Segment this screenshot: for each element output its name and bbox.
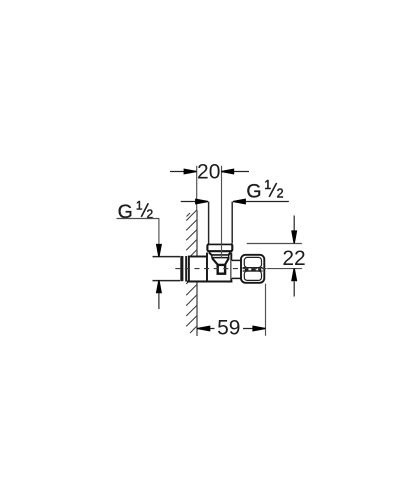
svg-text:2: 2 bbox=[277, 187, 284, 201]
body bottom edge bbox=[187, 281, 233, 283]
outlet neck fill bbox=[231, 260, 241, 278]
neck bottom line bbox=[232, 277, 242, 279]
left tube bottom arrow (up) bbox=[156, 280, 162, 309]
svg-text:20: 20 bbox=[197, 160, 220, 183]
svg-text:1: 1 bbox=[264, 178, 271, 192]
svg-text:1: 1 bbox=[136, 198, 143, 212]
dim 22: top arrow (down) bbox=[291, 216, 297, 244]
bonnet skirt line bbox=[211, 254, 229, 256]
neck top line bbox=[232, 259, 242, 261]
pipe dia dim: right arrow with G 1/2 leader bbox=[233, 198, 289, 204]
nut slot line top bbox=[243, 267, 263, 269]
shank ring 1 bbox=[180, 256, 183, 281]
dim 20: right arrow bbox=[221, 168, 249, 174]
nut thread mark 1 bbox=[245, 268, 249, 270]
shank ring 2 bbox=[185, 256, 187, 282]
flange chamfer right bbox=[229, 252, 231, 255]
dim 20: right extension line bbox=[221, 166, 223, 258]
wall surface line bbox=[196, 210, 198, 336]
pipe right edge bbox=[231, 202, 233, 244]
left G1/2 leader vertical + down arrow bbox=[156, 219, 162, 257]
outlet hex nut bbox=[241, 255, 264, 283]
dim 22: bottom extension line bbox=[267, 268, 302, 270]
label G 1/2 left bbox=[118, 198, 154, 223]
shank rings backing bbox=[180, 256, 188, 282]
valve seat cup bbox=[218, 265, 225, 274]
nut upper facet lobe bbox=[244, 257, 261, 267]
dim 22: top extension line bbox=[247, 243, 302, 245]
left G1/2 leader underline bbox=[117, 218, 160, 220]
body center left edge bbox=[206, 253, 208, 282]
dim 20: left extension line bbox=[196, 166, 198, 211]
pipe left edge bbox=[208, 202, 210, 244]
nut lower facet lobe bbox=[244, 271, 261, 280]
dim 59: right arrow (points right) bbox=[243, 325, 265, 331]
funnel left slant bbox=[212, 258, 218, 265]
body center right edge bbox=[230, 253, 232, 282]
label G 1/2 top right bbox=[246, 178, 283, 203]
nut slot line bottom bbox=[243, 270, 263, 272]
svg-text:22: 22 bbox=[282, 247, 305, 270]
top flange bbox=[207, 244, 232, 251]
bonnet skirt left side bbox=[211, 255, 213, 258]
bonnet skirt right side bbox=[228, 255, 230, 258]
flange chamfer left bbox=[209, 252, 212, 255]
inlet tube G1/2 shank bbox=[153, 257, 182, 281]
valve body left section bbox=[189, 257, 207, 282]
funnel right slant bbox=[225, 258, 229, 265]
body shoulder line bbox=[211, 257, 229, 259]
svg-text:G: G bbox=[118, 201, 133, 223]
vertical outlet pipe fill bbox=[209, 202, 231, 244]
dim 59: left arrow (points left) bbox=[197, 325, 214, 331]
dim 59: right extension line bbox=[265, 284, 267, 336]
outlet centerline (dash-dot) bbox=[175, 268, 266, 270]
dim 22: bottom arrow (up) bbox=[291, 268, 297, 296]
svg-text:G: G bbox=[246, 181, 261, 203]
svg-text:59: 59 bbox=[217, 317, 240, 340]
pipe dia dim: left arrow bbox=[181, 198, 208, 204]
wall hatching bbox=[186, 210, 197, 333]
valve body center section fill bbox=[207, 252, 232, 282]
nut thread mark 3 bbox=[258, 268, 261, 270]
dim 20: left arrow bbox=[170, 168, 197, 174]
nut thread mark 2 bbox=[251, 268, 255, 270]
